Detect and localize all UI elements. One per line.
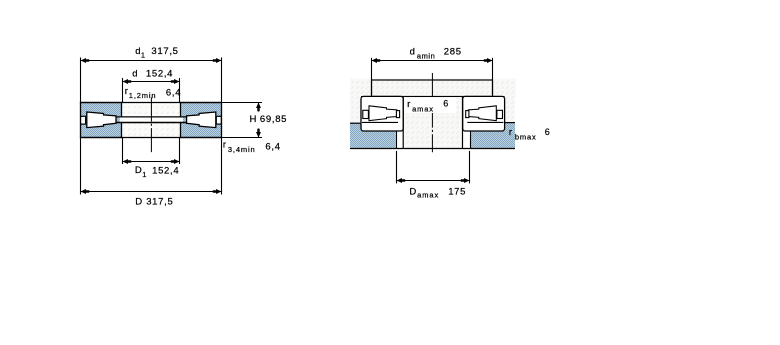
svg-text:6,4: 6,4 xyxy=(166,88,181,99)
svg-text:d: d xyxy=(135,46,140,57)
svg-text:D: D xyxy=(135,165,142,176)
svg-text:69,85: 69,85 xyxy=(260,114,287,125)
svg-text:D: D xyxy=(135,196,142,207)
svg-text:r: r xyxy=(125,86,128,97)
svg-text:d: d xyxy=(410,47,415,58)
svg-text:H: H xyxy=(250,114,257,125)
svg-text:amin: amin xyxy=(417,51,435,60)
svg-text:r: r xyxy=(223,140,226,151)
svg-text:r: r xyxy=(407,99,410,110)
svg-text:1,2min: 1,2min xyxy=(129,91,157,100)
svg-text:3,4min: 3,4min xyxy=(228,145,256,154)
svg-text:d: d xyxy=(132,68,137,79)
svg-text:285: 285 xyxy=(444,47,462,58)
svg-text:amax: amax xyxy=(412,105,434,114)
svg-text:317,5: 317,5 xyxy=(146,197,173,208)
svg-text:6: 6 xyxy=(443,99,448,109)
svg-text:6: 6 xyxy=(545,127,550,137)
svg-text:D: D xyxy=(409,187,416,198)
svg-text:r: r xyxy=(509,127,512,138)
svg-text:1: 1 xyxy=(141,51,145,60)
svg-text:152,4: 152,4 xyxy=(152,165,179,176)
svg-text:bmax: bmax xyxy=(515,132,537,141)
svg-text:1: 1 xyxy=(142,170,146,179)
svg-text:amax: amax xyxy=(417,190,439,199)
svg-text:175: 175 xyxy=(448,186,466,197)
svg-text:6,4: 6,4 xyxy=(265,142,280,153)
svg-text:317,5: 317,5 xyxy=(151,46,178,57)
svg-text:152,4: 152,4 xyxy=(146,69,173,80)
